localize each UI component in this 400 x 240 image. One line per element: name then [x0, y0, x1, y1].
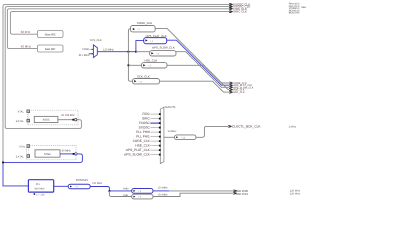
svg-text:XTAL: XTAL [19, 145, 26, 148]
dot FIRC [159, 113, 161, 115]
divider box CORE_CLK [131, 26, 156, 32]
wire xIPS_SLOW_CLK stub [150, 154, 160, 156]
svg-text:Slow IRC: Slow IRC [45, 33, 56, 36]
wire PRE0 output gray segment [169, 190, 233, 192]
svg-text:SCK_CLK: SCK_CLK [233, 91, 245, 94]
svg-text:40 MHz: 40 MHz [62, 149, 72, 152]
wire dotted XTAL-EXTAL connector (XOSC) [27, 113, 29, 119]
svg-text:S32 PHI1: S32 PHI1 [236, 192, 248, 196]
off-page arrow FXOSC_CLK [229, 3, 233, 5]
wire HSE_CLK output diagonal [167, 65, 229, 89]
wire FOSC to PLL (blue path around left) [3, 154, 82, 186]
wire 120 MHz mux output (blue) [97, 51, 136, 53]
port circle XOSC output [75, 119, 77, 121]
wire FIRC stub [150, 113, 160, 115]
wire PLL PHI1 stub [150, 136, 160, 138]
divider box POSTDIV (blue) [68, 184, 90, 189]
svg-text:FXOSC: FXOSC [139, 121, 151, 125]
off-page arrow SIRC_CLK [229, 11, 233, 13]
pin arrow mux input 1 [92, 53, 94, 55]
divider box PRE1 [132, 194, 153, 199]
svg-text:FOSC: FOSC [44, 153, 51, 156]
svg-text:PLL: PLL [36, 183, 41, 186]
svg-text:PLL PHI0: PLL PHI0 [79, 54, 90, 57]
wire PRE0 output blue segment [153, 190, 169, 192]
dot FXOSC [159, 122, 161, 124]
svg-text:120 MHz: 120 MHz [290, 192, 301, 195]
dot SXOSC [159, 127, 161, 129]
oscillator block Fast IRC [38, 45, 64, 52]
wire FXOSC stub (highlighted) [150, 122, 160, 124]
dot PLL PHI0 [159, 131, 161, 133]
off-page arrow PHI1 out [233, 192, 237, 194]
svg-text:960 MHz: 960 MHz [35, 187, 46, 190]
wire net SXOSC_32K loop (second) [5, 7, 231, 129]
off-page arrow CLKCTL_BCK_CLK [228, 125, 232, 127]
off-page arrow CORE_CLK [229, 82, 233, 84]
svg-text:PLL PHI0: PLL PHI0 [136, 130, 150, 134]
dashed module box XOSC [28, 110, 79, 125]
svg-text:PHI1: PHI1 [123, 194, 129, 197]
svg-text:32.768 kHz: 32.768 kHz [61, 114, 75, 117]
wire xIPS_PLAT_CLK stub [150, 149, 160, 151]
wire FOSC output (blue) [60, 153, 73, 155]
wire bus to HSE divider [128, 64, 141, 66]
svg-text:EXTAL: EXTAL [16, 120, 25, 123]
svg-text:CLKCTL_BCK_CLK: CLKCTL_BCK_CLK [232, 125, 261, 129]
wire PLL PHI0 stub [150, 131, 160, 133]
svg-text:PLL PHI1: PLL PHI1 [136, 135, 150, 139]
PLL feedback note [34, 193, 36, 195]
wire POSTDIV output (blue) [90, 187, 109, 191]
svg-text:FOSC: FOSC [82, 48, 89, 51]
wire divider feed bus (vertical) [128, 29, 132, 81]
off-page arrow SXOSC_CLK [229, 6, 233, 8]
svg-text:÷ 14: ÷ 14 [181, 136, 186, 139]
svg-text:xIPS_SLOW_CLK: xIPS_SLOW_CLK [124, 153, 151, 157]
wire XOSC output [58, 119, 72, 121]
wire dotted XTAL-EXTAL connector (FOSC) [27, 148, 29, 155]
divider box xIPS_SLOW_CLK [150, 51, 176, 56]
svg-text:SIRC CLK: SIRC CLK [233, 10, 247, 14]
junction dot bus to HSE divider [128, 64, 130, 66]
svg-text:MHz: MHz [301, 6, 307, 9]
svg-text:1.000: 1.000 [293, 12, 300, 15]
oscillator block XOSC [34, 116, 58, 122]
svg-text:FIRC: FIRC [142, 112, 150, 116]
svg-text:1 MHz: 1 MHz [289, 126, 297, 129]
svg-text:XTAL: XTAL [18, 110, 25, 113]
svg-text:HSE_CLK: HSE_CLK [135, 144, 150, 148]
pin arrow mux input 0 [92, 49, 94, 51]
junction dot XOSC output [72, 119, 74, 121]
oscillator block Slow IRC [38, 31, 64, 38]
svg-text:32 kHz: 32 kHz [21, 30, 31, 34]
PLL block U2 (blue) [28, 180, 53, 192]
dot xIPS_PLAT_CLK [159, 149, 161, 151]
svg-text:SCK_CLK: SCK_CLK [137, 74, 150, 78]
svg-text:14 MHz: 14 MHz [168, 130, 178, 133]
svg-text:SIRC: SIRC [142, 117, 150, 121]
wire blue into PLAT divider [136, 41, 144, 52]
junction dot at split to PLAT divider [135, 51, 137, 53]
wire to PRE0 (blue) [109, 190, 131, 192]
dot CORE_CLK [159, 140, 161, 142]
wire net FXOSC_40M loop (outermost, left/top) [3, 4, 231, 162]
dot SIRC [159, 118, 161, 120]
off-page arrow SCK_CLK [229, 91, 233, 93]
wire xIPS_PLAT_CLK output diagonal (blue) [167, 40, 230, 85]
dot PLL PHI1 [159, 136, 161, 138]
off-page arrow FIRC_CLK [229, 8, 233, 10]
wire to PRE1 (gray) [109, 191, 131, 197]
port circle FOSC output [75, 153, 77, 155]
svg-text:CORE_CLK: CORE_CLK [137, 21, 152, 25]
wire PRE1 output with step [153, 193, 233, 196]
svg-text:120 MHz: 120 MHz [158, 193, 169, 196]
divider box BCK [175, 135, 197, 140]
wire CLKCTL mux output [164, 136, 175, 138]
divider box SCK_CLK [133, 79, 160, 84]
mux U3 CLKCTL [160, 107, 164, 163]
wire into SLOW divider [136, 51, 150, 53]
oscillator block FOSC [35, 150, 60, 157]
wire FOSC stub into mux [90, 48, 94, 50]
svg-text:Fast IRC: Fast IRC [45, 48, 56, 51]
junction dot at bus [128, 51, 130, 53]
wire SCK_CLK output diagonal [160, 81, 230, 92]
svg-text:PHI0: PHI0 [123, 187, 129, 190]
wire PLL PHI0 stub into mux (blue) [89, 53, 94, 55]
dashed module box FOSC [27, 145, 77, 159]
off-page arrow xIPS_SLOW_CLK [229, 86, 233, 88]
svg-text:240 MHz: 240 MHz [92, 182, 103, 185]
svg-text:POSTDIV: POSTDIV [76, 178, 88, 182]
svg-text:SXOSC: SXOSC [139, 126, 151, 130]
junction dot FOSC output [73, 153, 75, 155]
wire HSE_CLK stub [150, 145, 160, 147]
divider box PRE0 (blue) [132, 189, 153, 194]
frequency legend table top right [289, 3, 307, 15]
wire net FIRC_40M (third) to Fast IRC [7, 9, 230, 49]
svg-text:120 MHz: 120 MHz [158, 187, 169, 190]
svg-text:1 + 128: 1 + 128 [36, 194, 45, 197]
junction dot PHI split [109, 190, 111, 192]
divider box HSE_CLK [142, 63, 168, 68]
mux U1 SYS_CLK (blue) [93, 45, 97, 58]
svg-text:SYS_CLK: SYS_CLK [90, 39, 102, 42]
svg-text:xIPS_SLOW_CLK: xIPS_SLOW_CLK [152, 46, 175, 50]
junction dot FOSC net to loop wire [2, 162, 4, 164]
dot xIPS_SLOW_CLK [159, 154, 161, 156]
svg-text:CORE_CLK: CORE_CLK [133, 139, 151, 143]
wire SIRC stub [150, 118, 160, 120]
wire net SIRC_32K (innermost) to Slow IRC [10, 12, 230, 35]
wire CORE_CLK output diagonal [155, 29, 229, 83]
divider box xIPS_PLAT_CLK (blue) [144, 38, 167, 44]
wire SXOSC stub [150, 127, 160, 129]
wire xIPS_SLOW_CLK output diagonal [176, 52, 229, 88]
svg-text:HSE_CLK: HSE_CLK [145, 58, 158, 62]
wire BCK divider output [196, 126, 228, 137]
svg-text:EXTAL: EXTAL [16, 155, 25, 158]
off-page arrow PHI0 out [233, 190, 237, 192]
wire CORE_CLK stub [150, 140, 160, 142]
svg-text:CLKCTL: CLKCTL [165, 105, 176, 109]
svg-text:XOSC: XOSC [43, 119, 50, 122]
svg-text:xIPS_PLAT_CLK: xIPS_PLAT_CLK [126, 148, 151, 152]
svg-text:40 MHz: 40 MHz [21, 44, 32, 48]
svg-text:120 MHz: 120 MHz [103, 48, 114, 51]
dot HSE_CLK [159, 145, 161, 147]
off-page arrow xIPS_PLAT_CLK [229, 84, 233, 86]
off-page arrow HSE_CLK [229, 89, 233, 91]
wire PLL to POSTDIV (blue) [54, 185, 68, 187]
